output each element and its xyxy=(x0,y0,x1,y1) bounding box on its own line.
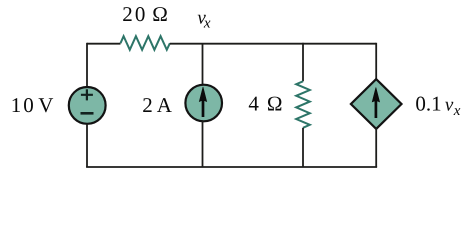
svg-text:A: A xyxy=(157,93,173,117)
node vx vertical wire (2A branch top) xyxy=(202,44,204,86)
wire 4 ohm branch top xyxy=(302,43,304,82)
svg-text:0.1: 0.1 xyxy=(415,92,441,116)
wire top rail left segment xyxy=(87,43,121,45)
arrow inside 2A source xyxy=(199,87,206,117)
svg-text:4: 4 xyxy=(248,92,259,116)
svg-text:Ω: Ω xyxy=(152,2,168,26)
svg-text:V: V xyxy=(38,93,53,117)
dependent current source diamond 0.1vx xyxy=(351,79,402,129)
svg-text:Ω: Ω xyxy=(267,92,283,116)
arrow inside dependent source xyxy=(372,87,379,118)
wire bottom rail xyxy=(86,166,377,168)
svg-text:x: x xyxy=(203,16,211,32)
svg-text:20: 20 xyxy=(122,2,147,26)
wire right rail lower xyxy=(375,128,377,167)
resistor 4 ohm vertical zigzag xyxy=(296,81,310,128)
wire left rail lower xyxy=(86,124,88,167)
svg-text:2: 2 xyxy=(142,93,153,117)
voltage source V1 10V circle xyxy=(69,87,106,124)
resistor 20 ohm zigzag xyxy=(121,36,170,50)
svg-text:x: x xyxy=(453,103,461,119)
wire top rail right segment xyxy=(170,43,376,45)
wire 4 ohm branch bottom xyxy=(302,128,304,167)
svg-text:10: 10 xyxy=(11,93,36,117)
wire left rail upper xyxy=(86,43,88,87)
minus sign inside V1 xyxy=(81,112,94,115)
wire right rail upper xyxy=(375,43,377,80)
current source I1 2A circle xyxy=(185,85,222,122)
svg-text:v: v xyxy=(445,95,454,116)
wire 2A branch bottom xyxy=(202,121,204,167)
plus sign inside V1 xyxy=(81,89,93,100)
